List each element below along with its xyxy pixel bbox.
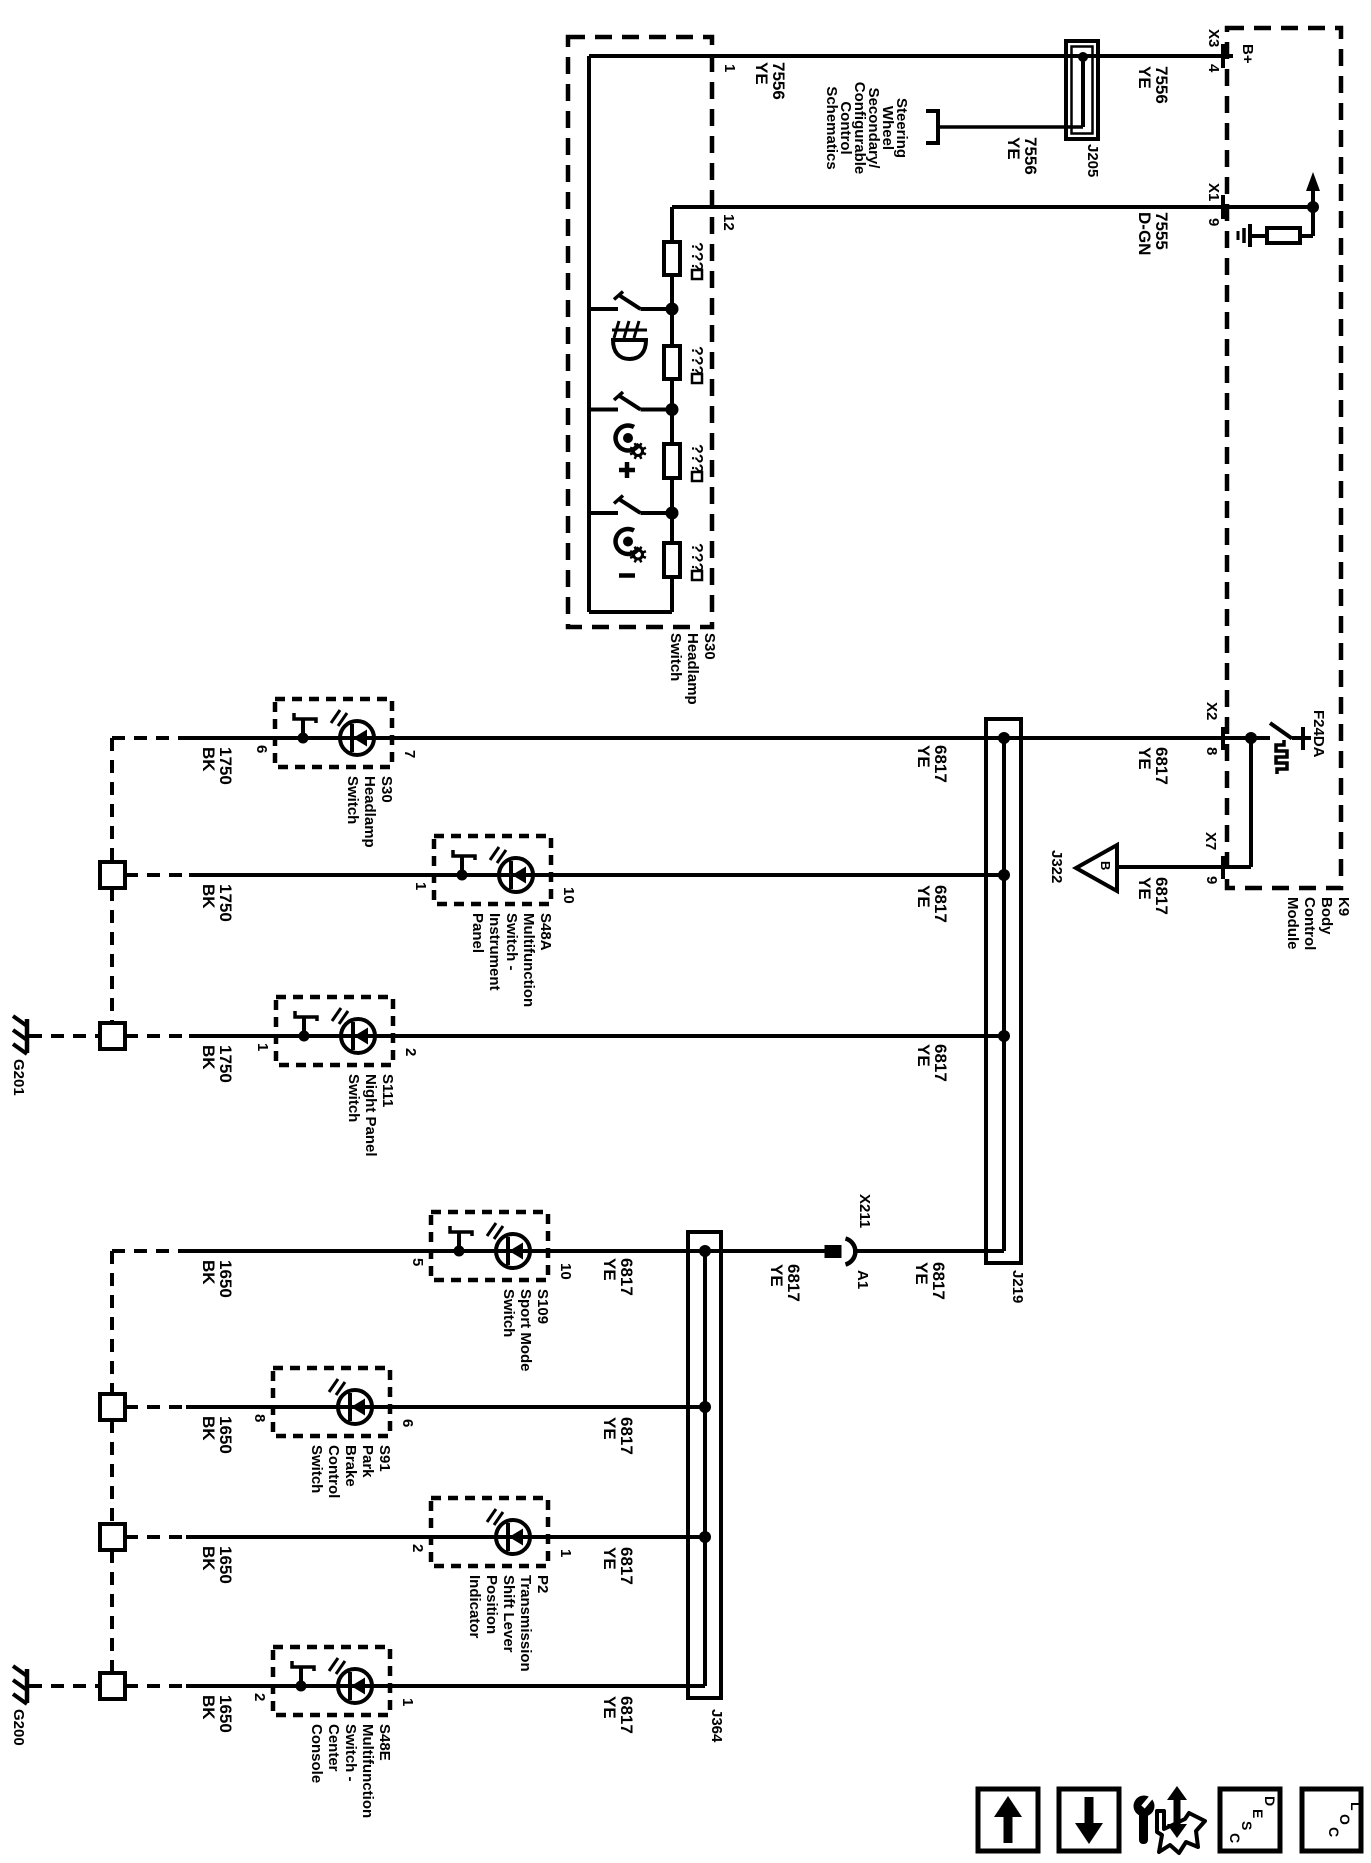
svg-text:Center: Center: [325, 1724, 342, 1772]
svg-text:G200: G200: [10, 1709, 27, 1746]
svg-text:Position: Position: [483, 1575, 500, 1634]
svg-text:Night Panel: Night Panel: [362, 1074, 379, 1157]
svg-text:S91: S91: [376, 1445, 393, 1472]
svg-text:BK: BK: [199, 1416, 218, 1441]
svg-text:P2: P2: [534, 1575, 551, 1593]
svg-text:Body: Body: [1318, 897, 1335, 935]
svg-text:YE: YE: [600, 1547, 619, 1570]
svg-text:YE: YE: [912, 1262, 931, 1285]
svg-text:S: S: [1239, 1821, 1255, 1830]
svg-text:C: C: [1227, 1833, 1243, 1843]
svg-text:YE: YE: [752, 62, 771, 85]
svg-text:D: D: [1262, 1796, 1278, 1806]
svg-text:2: 2: [409, 1544, 426, 1552]
svg-text:9: 9: [1203, 876, 1220, 884]
svg-text:Instrument: Instrument: [486, 913, 503, 991]
svg-text:???: ???: [688, 346, 705, 375]
svg-text:???: ???: [688, 444, 705, 473]
svg-text:X7: X7: [1202, 832, 1219, 850]
svg-text:G201: G201: [10, 1059, 27, 1096]
svg-text:A1: A1: [854, 1270, 871, 1289]
svg-text:X1: X1: [1205, 183, 1222, 201]
svg-text:YE: YE: [1135, 747, 1154, 770]
svg-text:YE: YE: [600, 1417, 619, 1440]
svg-text:Panel: Panel: [469, 913, 486, 953]
svg-text:L: L: [1348, 1802, 1364, 1811]
svg-text:X3: X3: [1205, 29, 1222, 47]
svg-text:YE: YE: [914, 885, 933, 908]
svg-text:8: 8: [251, 1414, 268, 1422]
svg-text:B+: B+: [1239, 44, 1256, 64]
svg-text:BK: BK: [199, 1546, 218, 1571]
svg-text:BK: BK: [199, 747, 218, 772]
svg-text:BK: BK: [199, 1260, 218, 1285]
svg-text:7: 7: [401, 750, 418, 758]
svg-text:O: O: [1337, 1814, 1353, 1825]
svg-text:Shift Lever: Shift Lever: [500, 1575, 517, 1653]
svg-text:YE: YE: [914, 745, 933, 768]
svg-text:2: 2: [402, 1048, 419, 1056]
svg-text:Switch: Switch: [308, 1445, 325, 1493]
svg-text:J219: J219: [1009, 1270, 1026, 1303]
svg-text:D-GN: D-GN: [1135, 212, 1154, 255]
svg-text:B: B: [1098, 861, 1113, 870]
svg-text:Brake: Brake: [342, 1445, 359, 1487]
svg-text:BK: BK: [199, 1695, 218, 1720]
svg-text:Schematics: Schematics: [823, 86, 840, 169]
svg-text:9: 9: [1205, 218, 1222, 226]
svg-text:1: 1: [399, 1698, 416, 1706]
svg-text:Park: Park: [359, 1445, 376, 1478]
svg-text:YE: YE: [1135, 66, 1154, 89]
svg-text:S111: S111: [379, 1074, 396, 1107]
svg-text:YE: YE: [1004, 137, 1023, 160]
svg-text:Sport Mode: Sport Mode: [517, 1289, 534, 1372]
svg-text:Switch: Switch: [667, 633, 684, 681]
svg-text:X211: X211: [856, 1194, 873, 1228]
svg-text:???: ???: [688, 242, 705, 271]
svg-text:K9: K9: [1335, 897, 1352, 916]
svg-text:C: C: [1326, 1827, 1342, 1837]
svg-text:Indicator: Indicator: [466, 1575, 483, 1639]
svg-text:F24DA: F24DA: [1310, 710, 1327, 758]
svg-text:S48A: S48A: [537, 913, 554, 951]
svg-text:2: 2: [251, 1693, 268, 1701]
svg-text:YE: YE: [1135, 877, 1154, 900]
svg-text:BK: BK: [199, 1045, 218, 1070]
svg-text:Headlamp: Headlamp: [361, 776, 378, 848]
svg-text:S48E: S48E: [376, 1724, 393, 1761]
svg-text:1: 1: [557, 1549, 574, 1557]
svg-text:BK: BK: [199, 884, 218, 909]
svg-text:8: 8: [1203, 747, 1220, 755]
svg-text:12: 12: [720, 214, 737, 231]
svg-text:J364: J364: [708, 1709, 725, 1743]
svg-text:S30: S30: [701, 633, 718, 660]
svg-text:Console: Console: [308, 1724, 325, 1783]
svg-text:J322: J322: [1048, 850, 1065, 883]
svg-text:Switch -: Switch -: [503, 913, 520, 971]
svg-text:???: ???: [688, 543, 705, 572]
svg-text:5: 5: [409, 1258, 426, 1266]
svg-text:Switch: Switch: [500, 1289, 517, 1337]
svg-text:Multifunction: Multifunction: [359, 1724, 376, 1818]
svg-text:Multifunction: Multifunction: [520, 913, 537, 1007]
svg-text:J205: J205: [1084, 144, 1101, 177]
svg-text:YE: YE: [600, 1258, 619, 1281]
svg-text:1: 1: [412, 882, 429, 890]
svg-text:Transmission: Transmission: [517, 1575, 534, 1672]
svg-text:4: 4: [1205, 64, 1222, 73]
svg-text:YE: YE: [767, 1264, 786, 1287]
svg-text:Switch: Switch: [345, 1074, 362, 1122]
svg-text:10: 10: [560, 887, 577, 904]
svg-text:S109: S109: [534, 1289, 551, 1324]
svg-text:1: 1: [254, 1043, 271, 1051]
svg-text:S30: S30: [378, 776, 395, 803]
svg-text:6: 6: [399, 1419, 416, 1427]
svg-text:Module: Module: [1284, 897, 1301, 950]
svg-text:YE: YE: [914, 1044, 933, 1067]
svg-text:Switch -: Switch -: [342, 1724, 359, 1782]
svg-text:Control: Control: [1301, 897, 1318, 950]
svg-text:YE: YE: [600, 1696, 619, 1719]
svg-text:10: 10: [557, 1263, 574, 1280]
svg-text:1: 1: [721, 64, 738, 72]
svg-text:E: E: [1250, 1809, 1266, 1818]
svg-text:Headlamp: Headlamp: [684, 633, 701, 705]
svg-text:Switch: Switch: [344, 776, 361, 824]
svg-text:Control: Control: [325, 1445, 342, 1498]
svg-text:6: 6: [253, 745, 270, 753]
svg-text:X2: X2: [1203, 702, 1220, 720]
